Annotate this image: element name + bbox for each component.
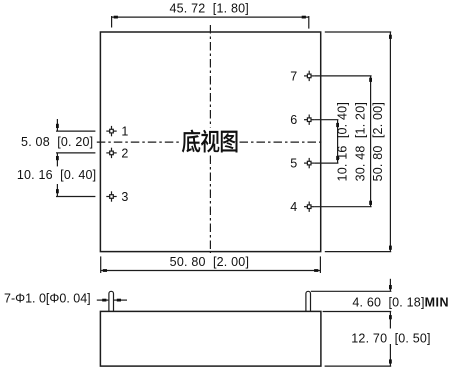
dimension 50.80 [2.00] right — [389, 32, 392, 252]
svg-text:7: 7 — [290, 69, 297, 83]
pin 2 — [106, 148, 116, 158]
pin 5 — [304, 158, 314, 168]
package outline bottom view — [100, 32, 320, 252]
label 底视图 (bottom view) — [182, 130, 238, 153]
dimension lines 5.08 / 10.16 left — [56, 119, 59, 197]
svg-text:50. 80 [2. 00]: 50. 80 [2. 00] — [371, 102, 385, 181]
svg-text:45. 72 [1. 80]: 45. 72 [1. 80] — [169, 2, 248, 16]
extension line body bottom side view — [325, 365, 392, 367]
pin 3 — [106, 191, 116, 201]
svg-text:4. 60 [0. 18]MIN: 4. 60 [0. 18]MIN — [352, 295, 449, 309]
leader arrows pin diameter — [97, 299, 127, 302]
dimension 12.70 [0.50] — [389, 344, 392, 366]
svg-text:3: 3 — [121, 190, 128, 204]
dimension 50.80 [2.00] bottom — [101, 256, 321, 273]
extension line pin top side view — [311, 290, 392, 292]
extension lines pins 1-3 left — [56, 130, 95, 132]
svg-text:12. 70 [0. 50]: 12. 70 [0. 50] — [351, 331, 430, 345]
extension lines right side — [314, 75, 371, 77]
horizontal centerline — [97, 141, 323, 143]
svg-text:5. 08 [0. 20]: 5. 08 [0. 20] — [21, 135, 93, 149]
dimension 4.60 [0.18]MIN — [389, 279, 392, 329]
svg-text:30. 48 [1. 20]: 30. 48 [1. 20] — [353, 102, 367, 181]
extension line body top side view — [323, 311, 392, 313]
pin 1 — [106, 126, 116, 136]
svg-text:10. 16 [0. 40]: 10. 16 [0. 40] — [17, 168, 96, 182]
svg-text:1: 1 — [121, 124, 128, 138]
svg-text:2: 2 — [121, 146, 128, 160]
dimension 10.16 [0.40] right — [336, 120, 339, 163]
svg-text:5: 5 — [290, 157, 297, 171]
svg-text:4: 4 — [290, 200, 297, 214]
side view right pin — [306, 291, 311, 311]
pin 7 — [304, 71, 314, 81]
side view body — [100, 311, 321, 366]
svg-text:6: 6 — [290, 113, 297, 127]
dimension 45.72 [1.80] top — [112, 16, 309, 29]
vertical centerline — [209, 25, 211, 253]
svg-text:50. 80 [2. 00]: 50. 80 [2. 00] — [170, 255, 249, 269]
side view left pin — [109, 291, 114, 311]
svg-text:7-Φ1. 0[Φ0. 04]: 7-Φ1. 0[Φ0. 04] — [4, 292, 91, 306]
pin 6 — [304, 115, 314, 125]
svg-text:10. 16 [0. 40]: 10. 16 [0. 40] — [336, 102, 350, 181]
pin 4 — [304, 202, 314, 212]
dimension 30.48 [1.20] right — [369, 76, 372, 207]
